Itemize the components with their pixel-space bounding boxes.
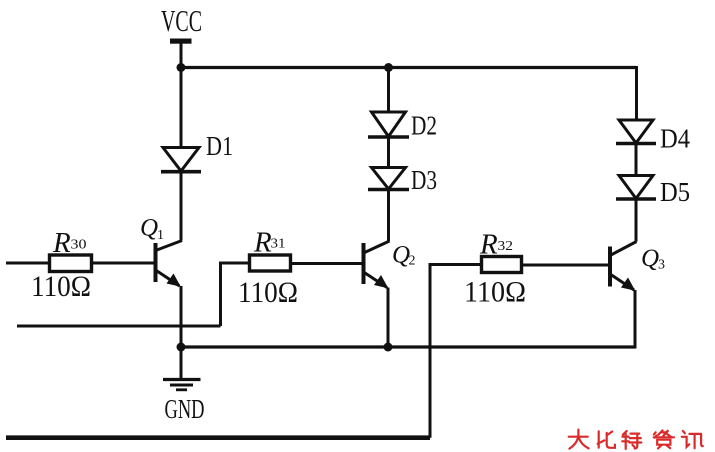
wire R32 to Q3 base bbox=[522, 264, 609, 267]
net VCC label bbox=[161, 3, 202, 38]
wire rail corner to D4 anode bbox=[635, 66, 638, 120]
wire Q3 emitter down bbox=[634, 290, 637, 349]
svg-text:110Ω: 110Ω bbox=[238, 276, 298, 309]
svg-text:1: 1 bbox=[157, 228, 164, 243]
svg-text:31: 31 bbox=[271, 237, 286, 252]
svg-text:30: 30 bbox=[71, 238, 87, 253]
label D3 bbox=[411, 165, 437, 195]
wire R30 to Q1 base bbox=[92, 262, 155, 265]
char da bbox=[569, 430, 589, 449]
diode D1 bbox=[161, 148, 201, 172]
label D4 bbox=[660, 124, 690, 154]
wire GND drop bbox=[180, 347, 183, 379]
svg-text:D4: D4 bbox=[660, 124, 690, 154]
wire R31 to Q2 base bbox=[291, 262, 363, 265]
transistor Q1 bbox=[156, 241, 183, 287]
junction dot at rail x=389 bbox=[384, 63, 393, 72]
wire rail to D2 anode bbox=[387, 68, 390, 113]
label R30 bbox=[52, 227, 87, 259]
svg-text:110Ω: 110Ω bbox=[464, 276, 526, 309]
wire R31 input riser bbox=[219, 262, 222, 327]
svg-text:R: R bbox=[253, 227, 272, 259]
transistor Q2 bbox=[364, 241, 390, 288]
label Q1 bbox=[140, 215, 164, 244]
char bi bbox=[598, 431, 615, 448]
diode D4 bbox=[616, 120, 656, 144]
svg-text:D1: D1 bbox=[206, 131, 233, 161]
resistor R32 bbox=[482, 257, 522, 273]
wire D2 cathode to D3 anode bbox=[387, 137, 390, 168]
junction dot bottom x=388 bbox=[384, 343, 393, 352]
resistor R30 bbox=[50, 255, 92, 272]
junction dot at VCC rail x=181 bbox=[177, 63, 186, 72]
power symbol VCC bar bbox=[170, 39, 192, 69]
char te bbox=[622, 431, 641, 449]
svg-text:R: R bbox=[52, 227, 71, 259]
svg-text:R: R bbox=[479, 229, 498, 261]
label GND bbox=[165, 394, 205, 424]
svg-text:VCC: VCC bbox=[161, 3, 202, 38]
value 110ohm for R31 bbox=[238, 276, 298, 309]
wire input to R30 bbox=[6, 262, 49, 265]
wire R32 input riser bbox=[429, 263, 432, 438]
svg-text:2: 2 bbox=[409, 254, 416, 269]
wire top rail bbox=[181, 66, 637, 69]
watermark text dabite zixun bbox=[569, 430, 703, 449]
transistor Q3 bbox=[610, 242, 637, 291]
svg-text:110Ω: 110Ω bbox=[31, 270, 91, 303]
label D2 bbox=[411, 111, 437, 141]
svg-text:D3: D3 bbox=[411, 165, 437, 195]
junction dot bottom x=181 bbox=[177, 343, 186, 352]
svg-text:Q: Q bbox=[641, 245, 659, 272]
svg-text:Q: Q bbox=[392, 242, 410, 269]
wire Q1 emitter down bbox=[180, 286, 183, 347]
diode D2 bbox=[368, 112, 409, 137]
diode D5 bbox=[616, 176, 656, 200]
char xun bbox=[682, 431, 703, 448]
wire D1 cathode to Q1 collector bbox=[180, 172, 183, 241]
label R31 bbox=[253, 227, 286, 259]
wire D4 cathode to D5 anode bbox=[635, 144, 638, 176]
label Q3 bbox=[641, 245, 665, 273]
wire bottom rail Q1 to Q3 emitters bbox=[181, 345, 636, 348]
label D1 bbox=[206, 131, 233, 161]
ground symbol bbox=[163, 380, 201, 390]
wire R31 input segment bottom bbox=[17, 325, 221, 328]
svg-text:3: 3 bbox=[658, 258, 665, 273]
diode D3 bbox=[368, 168, 409, 190]
wire VCC rail to D1 anode bbox=[180, 68, 183, 148]
resistor R31 bbox=[250, 255, 291, 271]
wire bottom input rail bbox=[6, 435, 430, 440]
label Q2 bbox=[392, 242, 416, 269]
wire riser to R31 bbox=[221, 262, 250, 265]
svg-text:D2: D2 bbox=[411, 111, 437, 141]
svg-text:32: 32 bbox=[498, 239, 514, 254]
svg-text:D5: D5 bbox=[660, 177, 690, 207]
label D5 bbox=[660, 177, 690, 207]
wire Q2 emitter down bbox=[387, 288, 390, 348]
value 110ohm for R32 bbox=[464, 276, 526, 309]
svg-text:Q: Q bbox=[140, 215, 158, 242]
svg-text:GND: GND bbox=[165, 394, 205, 424]
wire D3 cathode to Q2 collector bbox=[387, 190, 390, 242]
label R32 bbox=[479, 229, 513, 261]
value 110ohm for R30 bbox=[31, 270, 91, 303]
wire D5 cathode to Q3 collector bbox=[635, 199, 638, 242]
wire riser to R32 bbox=[430, 263, 481, 266]
char zi bbox=[654, 430, 674, 448]
